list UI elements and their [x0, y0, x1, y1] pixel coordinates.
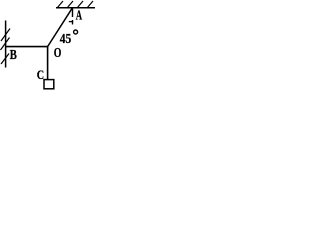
ceiling hatch 2: [67, 1, 73, 8]
block C square: [44, 80, 54, 89]
ceiling hatch 3: [77, 1, 83, 8]
svg-text:A: A: [76, 9, 83, 23]
wall hatch 2: [1, 38, 10, 51]
wall hatch 1: [1, 29, 10, 42]
wire string OB horizontal: [6, 46, 48, 48]
svg-text:O: O: [54, 44, 62, 60]
svg-text:45: 45: [60, 31, 71, 46]
wall hatch 3: [1, 54, 9, 65]
degree symbol: [74, 30, 78, 34]
wire string OC vertical: [47, 47, 49, 80]
ceiling hatch 1: [57, 1, 63, 8]
svg-text:C: C: [37, 68, 44, 82]
ceiling line: [56, 7, 95, 9]
wall line: [5, 21, 7, 68]
dashed vertical reference line at ceiling: [72, 8, 74, 17]
ceiling hatch 4: [87, 1, 93, 8]
wire string OA diagonal: [48, 8, 73, 47]
angle tick: [69, 21, 73, 23]
svg-text:B: B: [10, 46, 17, 62]
